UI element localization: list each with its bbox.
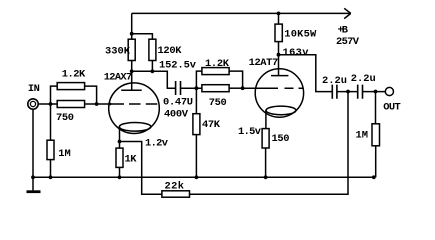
svg-text:400V: 400V: [164, 109, 189, 121]
svg-text:152.5v: 152.5v: [159, 59, 197, 71]
svg-text:330K: 330K: [105, 46, 131, 58]
svg-text:2.2u: 2.2u: [322, 75, 347, 87]
svg-text:10K5W: 10K5W: [284, 28, 317, 40]
svg-text:1K: 1K: [125, 153, 138, 165]
svg-text:12AT7: 12AT7: [249, 57, 279, 69]
svg-text:1.2v: 1.2v: [145, 137, 169, 149]
svg-text:2.2u: 2.2u: [351, 73, 376, 85]
svg-text:22k: 22k: [165, 181, 185, 193]
svg-text:+B: +B: [338, 25, 349, 37]
svg-text:IN: IN: [28, 83, 40, 95]
svg-text:750: 750: [209, 97, 227, 109]
svg-text:1M: 1M: [356, 129, 369, 141]
svg-text:1.2K: 1.2K: [205, 58, 230, 70]
svg-text:150: 150: [272, 133, 290, 145]
svg-text:0.47U: 0.47U: [163, 97, 193, 109]
svg-text:OUT: OUT: [383, 101, 401, 113]
svg-text:257V: 257V: [336, 36, 360, 48]
svg-text:1.2K: 1.2K: [62, 69, 86, 81]
svg-text:47K: 47K: [202, 119, 221, 131]
svg-text:163v: 163v: [283, 47, 310, 59]
svg-text:750: 750: [56, 112, 74, 124]
svg-text:12AX7: 12AX7: [104, 71, 133, 83]
svg-text:1M: 1M: [58, 148, 71, 160]
svg-text:1.5v: 1.5v: [238, 126, 262, 138]
svg-text:120K: 120K: [158, 45, 183, 57]
